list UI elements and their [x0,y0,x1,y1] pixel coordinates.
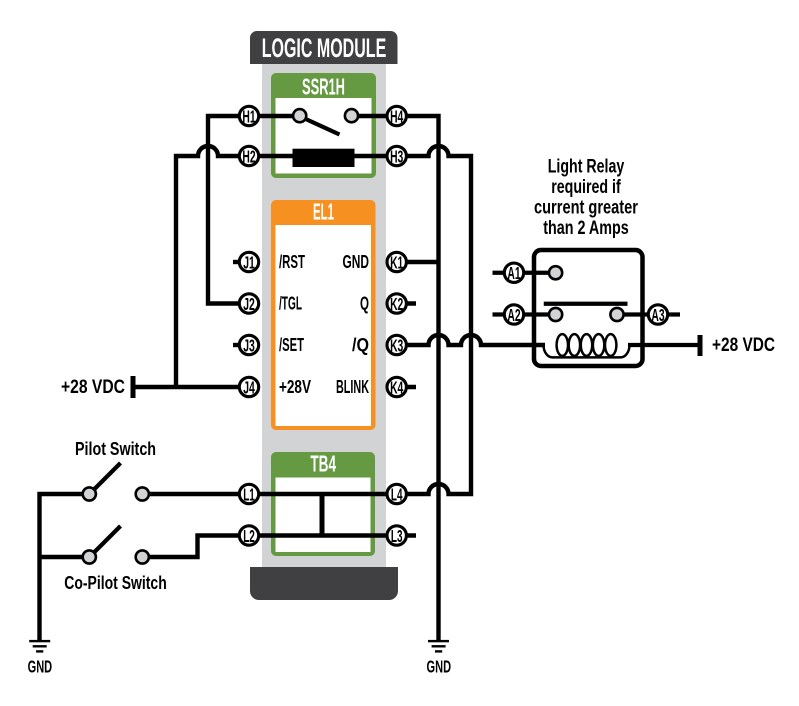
svg-text:TB4: TB4 [310,451,336,477]
module base [250,567,398,600]
terminal K3 [387,335,406,355]
terminal H1 [239,106,258,126]
stub L3 [397,533,416,537]
svg-text:H2: H2 [242,146,255,166]
relay contact circle A1 [549,266,562,279]
wire H3 to L4 via right vertical with hops [397,146,471,494]
terminal H2 [239,146,258,166]
svg-text:L1: L1 [243,484,255,504]
wire A1 into relay [493,271,556,275]
svg-text:K4: K4 [390,377,403,397]
svg-text:GND: GND [427,656,452,676]
module body [262,45,386,567]
+28VDC terminal bar right [698,335,703,356]
wire pilot switch to L1 [148,492,249,496]
svg-text:+28 VDC: +28 VDC [712,334,775,356]
stub J1 [233,260,249,264]
wire coil to +28VDC [628,343,698,347]
light relay box [534,250,643,366]
terminal J4 [239,377,258,397]
relay contact circle A2 left [549,308,562,321]
svg-text:H1: H1 [242,106,255,126]
svg-text:required if: required if [551,176,621,198]
svg-text:Pilot Switch: Pilot Switch [75,439,156,459]
wire H1 to J2 via left vertical [208,116,249,304]
svg-text:/Q: /Q [352,335,369,355]
wire relay contact to A3 [617,312,680,316]
svg-text:H4: H4 [390,106,403,126]
pilot switch contact right [136,487,149,500]
svg-text:+28V: +28V [279,377,311,397]
relay coil loops [557,334,617,356]
ground symbol right [427,640,452,676]
svg-text:BLINK: BLINK [336,377,369,397]
stub J3 [233,343,249,347]
co-pilot switch lever [93,526,121,554]
relay contact bar [544,302,628,306]
wire A2 into relay [493,312,556,316]
svg-text:A1: A1 [507,263,520,283]
terminal K1 [387,252,406,272]
+28VDC terminal bar left [131,376,136,398]
svg-text:K1: K1 [390,252,403,272]
terminal J2 [239,294,258,314]
terminal K2 [387,294,406,314]
pilot switch lever [93,463,121,491]
wire H4 to GND right vertical [397,116,439,640]
svg-text:/RST: /RST [279,252,305,272]
wire L2 to L3 [249,533,397,537]
wire H1 to switch contact [249,114,300,118]
svg-text:GND: GND [28,656,53,676]
wire L1 to L4 [249,492,397,496]
svg-text:+28 VDC: +28 VDC [61,376,125,398]
wire switch to H4 [352,114,398,118]
terminal J1 [239,252,258,272]
svg-text:J3: J3 [243,335,255,355]
stub K4 [397,385,416,389]
wire K1 to right vertical [397,260,439,264]
light relay note [534,156,638,240]
svg-text:current greater: current greater [534,197,638,219]
svg-text:/SET: /SET [279,335,304,355]
terminal L1 [239,484,258,504]
wire co-pilot branch [40,555,90,559]
terminal H3 [387,146,406,166]
svg-text:than 2 Amps: than 2 Amps [543,217,629,239]
co-pilot switch contact right [136,550,149,563]
svg-text:L4: L4 [391,484,403,504]
svg-text:H3: H3 [390,146,403,166]
svg-text:Co-Pilot Switch: Co-Pilot Switch [64,573,167,593]
terminal A1 [504,263,523,283]
relay contact circle A2 right [610,308,623,321]
terminal K4 [387,377,406,397]
switch lever SSR1H [304,118,340,135]
wire co-pilot switch to L2 [148,536,249,558]
stub K2 [397,301,416,305]
svg-text:J1: J1 [243,252,255,272]
wire K3 to relay coil with two hops [397,335,545,345]
wire +28VDC to J4 [135,385,249,389]
load resistor block SSR1H [293,149,355,167]
ground symbol left [28,640,53,676]
svg-text:EL1: EL1 [313,199,334,225]
terminal L4 [387,484,406,504]
relay module SSR1H [271,73,376,178]
svg-text:J4: J4 [243,377,255,397]
switch contact left SSR1H [293,109,306,122]
relay coil baseline [544,345,630,357]
terminal A3 [648,305,667,325]
switch contact right SSR1H [345,109,358,122]
svg-text:L3: L3 [391,526,403,546]
terminal L2 [239,526,258,546]
svg-text:K3: K3 [390,335,403,355]
terminal A2 [504,305,523,325]
wire H2 to H3 [249,154,397,158]
svg-text:J2: J2 [243,294,255,314]
svg-text:L2: L2 [243,526,255,546]
svg-text:LOGIC MODULE: LOGIC MODULE [262,33,387,63]
logic module header [250,31,398,64]
timer module EL1 [271,199,376,431]
svg-text:GND: GND [343,252,370,272]
terminal L3 [387,526,406,546]
svg-text:K2: K2 [390,294,403,314]
pilot switch contact left [83,487,96,500]
co-pilot switch contact left [83,550,96,563]
TB4 internal jumper [320,494,325,536]
terminal J3 [239,335,258,355]
svg-text:SSR1H: SSR1H [302,74,345,100]
svg-text:Q: Q [360,294,369,314]
svg-text:Light Relay: Light Relay [548,156,625,178]
wire H2 to +28VDC rail with hop over H1 wire [176,146,249,387]
svg-text:A3: A3 [651,305,664,325]
svg-text:A2: A2 [507,305,520,325]
svg-text:/TGL: /TGL [279,294,302,314]
wire GND rail to pilot switch [40,494,90,640]
terminal block TB4 [271,451,375,557]
terminal H4 [387,106,406,126]
